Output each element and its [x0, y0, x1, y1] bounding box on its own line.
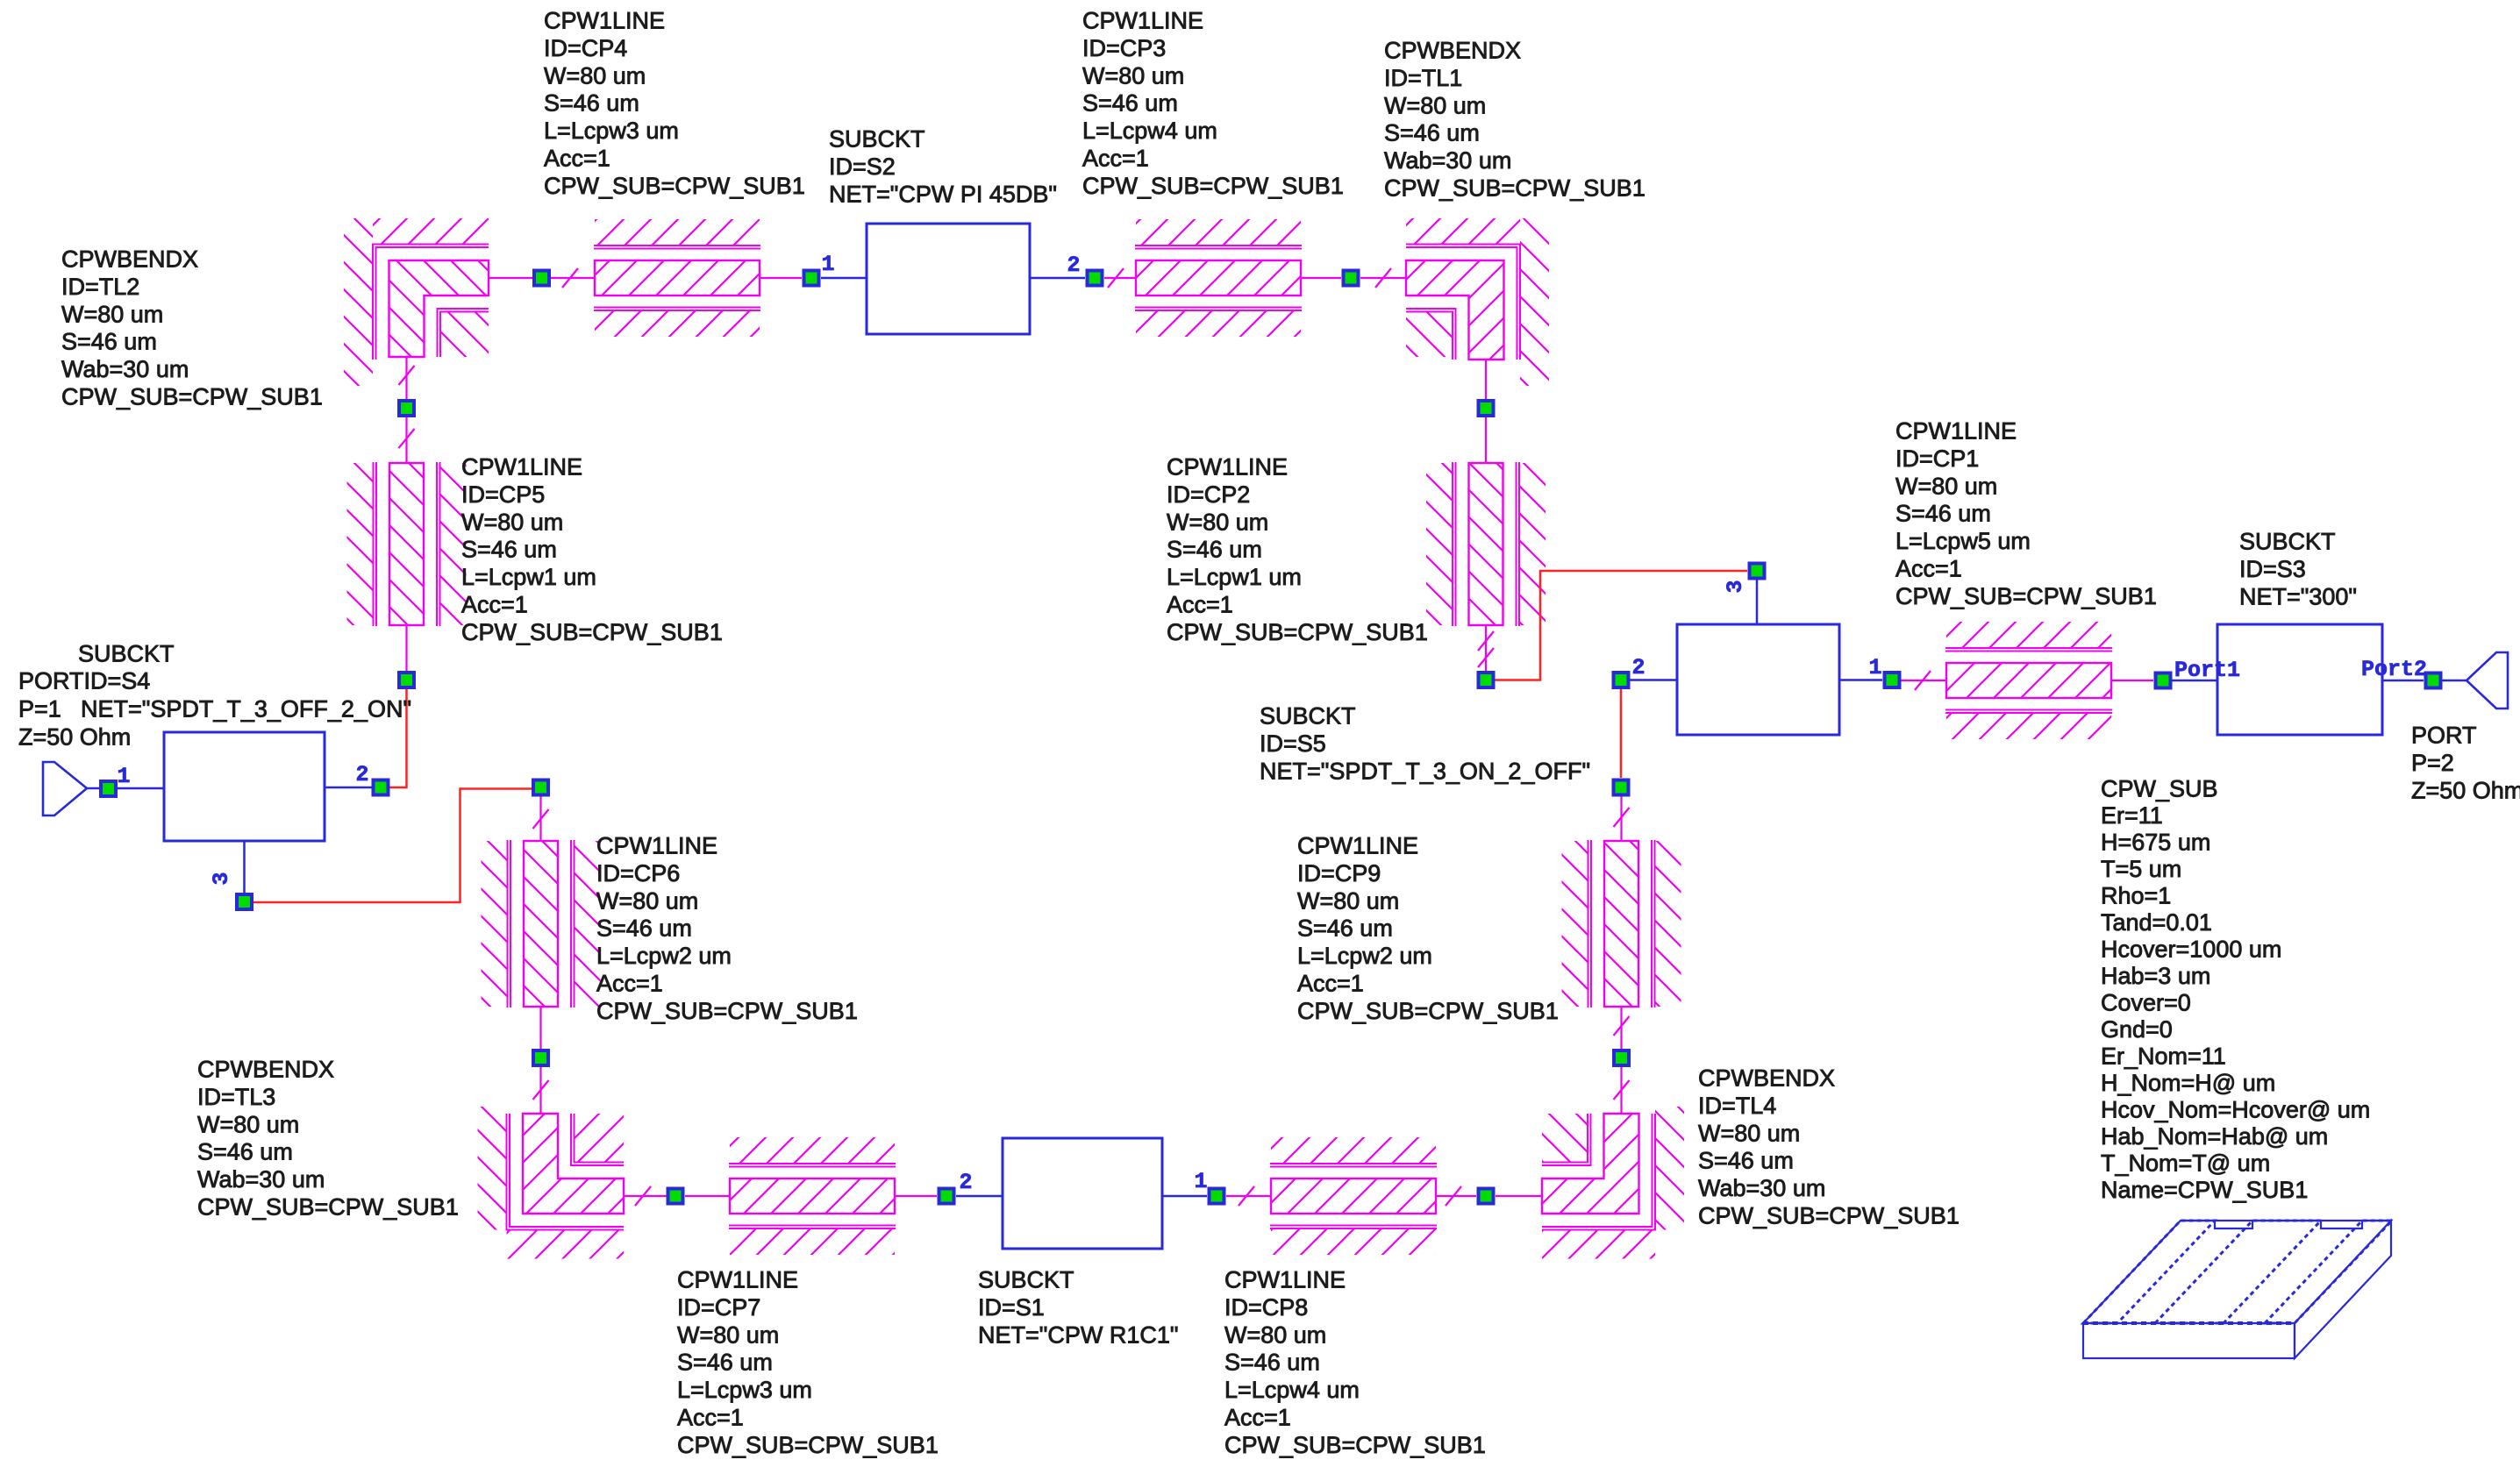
svg-text:L=Lcpw2 um: L=Lcpw2 um — [596, 943, 732, 969]
CPW bend TL1 (CPWBENDX) — [1406, 218, 1549, 386]
svg-text:SUBCKT: SUBCKT — [829, 126, 925, 153]
svg-text:L=Lcpw1 um: L=Lcpw1 um — [461, 564, 596, 590]
svg-text:L=Lcpw3 um: L=Lcpw3 um — [677, 1377, 812, 1403]
wire CP9 bottom to node — [1614, 1007, 1630, 1049]
svg-text:CPW_SUB=CPW_SUB1: CPW_SUB=CPW_SUB1 — [1082, 173, 1344, 199]
svg-text:CPW1LINE: CPW1LINE — [461, 454, 582, 481]
svg-text:NET="CPW PI 45DB": NET="CPW PI 45DB" — [829, 181, 1057, 207]
svg-text:Acc=1: Acc=1 — [1167, 592, 1233, 618]
svg-text:1: 1 — [821, 252, 834, 277]
svg-text:Acc=1: Acc=1 — [1895, 556, 1962, 582]
svg-text:Gnd=0: Gnd=0 — [2101, 1016, 2173, 1043]
wire CP4 right to node — [760, 277, 802, 279]
svg-text:S=46 um: S=46 um — [1698, 1148, 1794, 1174]
port P1 symbol — [43, 762, 87, 815]
svg-text:2: 2 — [1631, 655, 1645, 680]
wire S4 pin2 — [325, 787, 372, 789]
svg-text:S=46 um: S=46 um — [61, 329, 157, 355]
svg-text:W=80 um: W=80 um — [1384, 92, 1486, 118]
subcircuit S4 box — [164, 732, 325, 841]
svg-text:ID=S3: ID=S3 — [2239, 556, 2306, 582]
svg-text:CPW_SUB=CPW_SUB1: CPW_SUB=CPW_SUB1 — [1167, 619, 1428, 645]
label P1 Z=50 Ohm — [18, 724, 131, 751]
label CPW_SUB params — [2101, 776, 2370, 1204]
svg-text:PORTID=S4: PORTID=S4 — [18, 668, 150, 694]
node S4 pin2 — [372, 779, 390, 797]
svg-text:SUBCKT: SUBCKT — [978, 1267, 1074, 1293]
svg-text:CPW_SUB=CPW_SUB1: CPW_SUB=CPW_SUB1 — [544, 173, 805, 199]
svg-text:3: 3 — [209, 872, 234, 885]
svg-text:CPW_SUB=CPW_SUB1: CPW_SUB=CPW_SUB1 — [1895, 583, 2157, 609]
CPW bend TL3 (CPWBENDX) — [478, 1107, 625, 1259]
svg-text:W=80 um: W=80 um — [461, 509, 563, 535]
svg-text:Acc=1: Acc=1 — [1082, 146, 1149, 172]
wire node to S2 pin1 — [821, 277, 867, 280]
wire CP7 right to node — [895, 1195, 937, 1197]
svg-text:CPW_SUB=CPW_SUB1: CPW_SUB=CPW_SUB1 — [677, 1432, 939, 1458]
svg-text:CPW1LINE: CPW1LINE — [596, 833, 717, 859]
wire CP1 right to node — [2111, 680, 2153, 681]
wire node to TL3 top — [533, 1067, 549, 1114]
node TL2/CP4 — [532, 269, 551, 288]
wire node to TL4 top — [1614, 1067, 1630, 1114]
svg-text:2: 2 — [1067, 253, 1080, 278]
label CPW1LINE CP8 — [1224, 1267, 1486, 1458]
svg-text:Z=50 Ohm: Z=50 Ohm — [2411, 777, 2520, 803]
svg-text:S=46 um: S=46 um — [197, 1139, 293, 1165]
label SUBCKT S2 — [829, 126, 1057, 208]
wire TL2 right to node — [489, 277, 532, 279]
svg-text:S=46 um: S=46 um — [1297, 915, 1393, 942]
svg-text:Tand=0.01: Tand=0.01 — [2101, 909, 2212, 936]
wire node to CP4 left — [551, 268, 595, 288]
node S3 Port2 — [2424, 672, 2443, 690]
svg-text:CPWBENDX: CPWBENDX — [197, 1057, 334, 1083]
svg-text:Hcov_Nom=Hcover@ um: Hcov_Nom=Hcover@ um — [2101, 1097, 2370, 1123]
wire node to S3 Port1 — [2172, 680, 2217, 682]
wire S5 pin1 — [1839, 679, 1882, 681]
node TL3/CP7 — [667, 1187, 685, 1206]
label SUBCKT S5 — [1260, 703, 1590, 785]
CPW1LINE CP9 symbol — [1562, 840, 1681, 1008]
wire node to TL1 left — [1360, 268, 1406, 288]
svg-text:Hcover=1000 um: Hcover=1000 um — [2101, 936, 2281, 963]
svg-text:ID=CP8: ID=CP8 — [1224, 1294, 1308, 1321]
svg-text:H=675 um: H=675 um — [2101, 830, 2210, 856]
label CPWBENDX TL1 — [1384, 38, 1645, 202]
wire node to CP1 left — [1901, 671, 1946, 690]
wire node to CP8 left — [1226, 1186, 1271, 1206]
node S5 pin3 — [1748, 562, 1767, 580]
label S4 P=1 — [18, 696, 61, 723]
svg-text:CPW_SUB=CPW_SUB1: CPW_SUB=CPW_SUB1 — [596, 998, 858, 1024]
Port1 label S3 — [2174, 658, 2240, 683]
svg-text:CPW1LINE: CPW1LINE — [677, 1267, 798, 1293]
node CP8/TL4 — [1477, 1187, 1496, 1206]
svg-text:S=46 um: S=46 um — [677, 1349, 773, 1376]
node CP9 top — [1612, 779, 1631, 797]
svg-text:CPW1LINE: CPW1LINE — [544, 8, 665, 34]
svg-text:S=46 um: S=46 um — [461, 537, 557, 563]
label S4 NET — [81, 696, 411, 723]
svg-text:Er_Nom=11: Er_Nom=11 — [2101, 1043, 2226, 1070]
svg-text:P=1: P=1 — [18, 696, 61, 723]
wire S4 pin3 — [243, 841, 246, 893]
CPW1LINE CP2 symbol — [1426, 462, 1546, 626]
wire S3 Port2 to node — [2382, 680, 2424, 682]
wire port1 to S4 pin1 — [87, 787, 164, 790]
CPW1LINE CP7 symbol — [729, 1137, 896, 1255]
pin 1 label S1 — [1194, 1169, 1207, 1194]
label CPW1LINE CP4 — [544, 8, 805, 199]
svg-text:Acc=1: Acc=1 — [1297, 971, 1364, 997]
label CPW1LINE CP5 — [461, 454, 723, 645]
substrate CPW_SUB1 3D icon — [2083, 1221, 2392, 1358]
svg-text:1: 1 — [1868, 655, 1881, 680]
svg-text:SUBCKT: SUBCKT — [1260, 703, 1356, 730]
node TL1/CP2 — [1477, 399, 1496, 417]
wire S5 pin3 — [1756, 580, 1759, 624]
pin 1 label S4 — [117, 764, 130, 789]
label CPW1LINE CP9 — [1297, 833, 1559, 1024]
svg-text:NET="300": NET="300" — [2239, 583, 2357, 609]
svg-text:W=80 um: W=80 um — [197, 1111, 299, 1137]
wire CP2 bottom to node — [1478, 625, 1494, 671]
node S4 pin3 — [235, 893, 253, 911]
svg-text:Er=11: Er=11 — [2101, 802, 2163, 829]
svg-text:L=Lcpw4 um: L=Lcpw4 um — [1224, 1377, 1360, 1403]
svg-text:SUBCKT: SUBCKT — [2239, 529, 2336, 555]
svg-text:W=80 um: W=80 um — [677, 1321, 779, 1348]
svg-text:Port1: Port1 — [2174, 658, 2240, 683]
pin 2 label S1 — [959, 1170, 972, 1195]
pin 2 label S2 — [1067, 253, 1080, 278]
svg-text:W=80 um: W=80 um — [61, 301, 163, 327]
label CPW1LINE CP6 — [596, 833, 858, 1024]
wire node to CP3 left — [1104, 268, 1136, 288]
svg-text:ID=CP3: ID=CP3 — [1082, 35, 1166, 61]
svg-text:Hab=3 um: Hab=3 um — [2101, 963, 2210, 989]
svg-text:CPW1LINE: CPW1LINE — [1167, 454, 1288, 481]
svg-text:W=80 um: W=80 um — [1895, 473, 1997, 499]
wire CP6 bottom to node — [539, 1007, 541, 1049]
svg-text:Z=50 Ohm: Z=50 Ohm — [18, 724, 131, 751]
label CPWBENDX TL4 — [1698, 1065, 1960, 1229]
svg-text:ID=CP6: ID=CP6 — [596, 860, 680, 887]
svg-text:Port2: Port2 — [2361, 657, 2427, 682]
svg-text:NET="SPDT_T_3_ON_2_OFF": NET="SPDT_T_3_ON_2_OFF" — [1260, 758, 1590, 784]
svg-text:CPW_SUB=CPW_SUB1: CPW_SUB=CPW_SUB1 — [461, 619, 723, 645]
pin 3 label S4 (rotated) — [209, 872, 234, 885]
red wire S4 pin2 to CP5 bottom node — [389, 689, 407, 787]
wire S1 pin1 to node — [1162, 1195, 1207, 1198]
svg-text:S=46 um: S=46 um — [1167, 537, 1262, 563]
subcircuit S2 box — [867, 224, 1030, 334]
svg-text:S=46 um: S=46 um — [1082, 90, 1178, 117]
svg-text:CPW_SUB=CPW_SUB1: CPW_SUB=CPW_SUB1 — [1297, 998, 1559, 1024]
node port1/S4 pin1 — [99, 780, 118, 798]
node CP6/TL3 — [532, 1049, 550, 1067]
node S5 pin2 — [1612, 671, 1631, 689]
label CPW1LINE CP2 — [1167, 454, 1428, 645]
svg-text:CPW1LINE: CPW1LINE — [1297, 833, 1418, 859]
port P2 symbol — [2466, 652, 2508, 709]
svg-text:Acc=1: Acc=1 — [544, 146, 610, 172]
svg-text:L=Lcpw1 um: L=Lcpw1 um — [1167, 564, 1302, 590]
wire TL2 bottom to node — [399, 357, 415, 399]
svg-text:ID=TL3: ID=TL3 — [197, 1084, 275, 1110]
svg-text:Acc=1: Acc=1 — [461, 592, 528, 618]
svg-text:1: 1 — [117, 764, 130, 789]
svg-text:CPW_SUB=CPW_SUB1: CPW_SUB=CPW_SUB1 — [1384, 175, 1645, 202]
svg-text:SUBCKT: SUBCKT — [78, 641, 175, 667]
svg-text:CPWBENDX: CPWBENDX — [1698, 1065, 1835, 1092]
svg-text:S=46 um: S=46 um — [1895, 501, 1991, 527]
pin 3 label S5 (rotated) — [1723, 580, 1748, 593]
svg-text:W=80 um: W=80 um — [1167, 509, 1268, 535]
svg-text:W=80 um: W=80 um — [1224, 1321, 1326, 1348]
label PORT P1 / S4 id — [18, 668, 150, 694]
CPW1LINE CP6 symbol — [482, 840, 601, 1008]
wire CP6 top — [533, 796, 549, 841]
svg-text:NET="CPW R1C1": NET="CPW R1C1" — [978, 1321, 1178, 1348]
node CP1/S3 Port1 — [2154, 672, 2173, 690]
svg-text:W=80 um: W=80 um — [596, 887, 698, 914]
label CPW1LINE CP7 — [677, 1267, 939, 1458]
svg-text:Wab=30 um: Wab=30 um — [1384, 147, 1511, 174]
wire CP9 top — [1614, 796, 1630, 841]
svg-text:S=46 um: S=46 um — [1384, 120, 1480, 146]
svg-text:CPW1LINE: CPW1LINE — [1895, 418, 2017, 445]
CPW1LINE CP4 symbol — [594, 219, 760, 337]
node S1 pin1/CP8 — [1208, 1187, 1226, 1206]
wire TL1 bottom to node — [1485, 360, 1487, 399]
pin 1 label S5 — [1868, 655, 1881, 680]
Port2 label S3 — [2361, 657, 2427, 682]
node CP5 bottom — [397, 671, 416, 689]
subcircuit S5 box — [1677, 624, 1839, 735]
svg-text:W=80 um: W=80 um — [544, 62, 646, 89]
label SUBCKT S4 header — [78, 641, 175, 667]
label CPW1LINE CP3 — [1082, 8, 1344, 199]
svg-text:ID=CP7: ID=CP7 — [677, 1294, 760, 1321]
svg-text:Rho=1: Rho=1 — [2101, 883, 2171, 909]
wire CP3 right to node — [1301, 277, 1341, 279]
CPW bend TL4 (CPWBENDX) — [1542, 1107, 1684, 1259]
CPW1LINE CP8 symbol — [1270, 1137, 1437, 1255]
CPW bend TL2 (CPWBENDX) — [344, 218, 489, 386]
svg-text:L=Lcpw5 um: L=Lcpw5 um — [1895, 528, 2031, 554]
svg-text:CPW1LINE: CPW1LINE — [1224, 1267, 1346, 1293]
label CPWBENDX TL2 — [61, 246, 323, 410]
svg-text:ID=CP1: ID=CP1 — [1895, 445, 1979, 472]
svg-text:W=80 um: W=80 um — [1082, 62, 1184, 89]
svg-text:W=80 um: W=80 um — [1297, 887, 1399, 914]
svg-text:ID=TL2: ID=TL2 — [61, 274, 139, 300]
wire node to CP7 left — [685, 1195, 730, 1197]
svg-text:H_Nom=H@ um: H_Nom=H@ um — [2101, 1070, 2275, 1096]
svg-text:ID=TL4: ID=TL4 — [1698, 1093, 1776, 1119]
red wire CP2 node to S5 pin3 — [1495, 571, 1747, 680]
svg-text:CPW_SUB: CPW_SUB — [2101, 776, 2218, 802]
svg-text:S=46 um: S=46 um — [544, 90, 639, 117]
svg-text:Acc=1: Acc=1 — [677, 1405, 744, 1431]
node CP6 top — [532, 779, 550, 797]
pin 1 label S2 — [821, 252, 834, 277]
svg-text:Acc=1: Acc=1 — [1224, 1405, 1291, 1431]
node CP3/TL1 — [1342, 269, 1360, 288]
pin 2 label S5 — [1631, 655, 1645, 680]
wire node to TL4 left — [1496, 1195, 1542, 1197]
svg-text:ID=CP5: ID=CP5 — [461, 481, 545, 508]
svg-text:ID=TL1: ID=TL1 — [1384, 65, 1462, 91]
CPW1LINE CP1 symbol — [1945, 622, 2112, 739]
svg-text:ID=CP4: ID=CP4 — [544, 35, 627, 61]
wire CP5 bottom — [405, 625, 407, 671]
svg-text:PORT: PORT — [2411, 723, 2477, 749]
svg-text:ID=S1: ID=S1 — [978, 1294, 1045, 1321]
svg-text:CPW_SUB=CPW_SUB1: CPW_SUB=CPW_SUB1 — [61, 384, 323, 410]
node S2 pin2/CP3 — [1086, 269, 1104, 288]
svg-text:W=80 um: W=80 um — [1698, 1120, 1800, 1146]
node CP2 bottom — [1477, 671, 1496, 689]
svg-text:CPWBENDX: CPWBENDX — [61, 246, 198, 273]
svg-text:Hab_Nom=Hab@ um: Hab_Nom=Hab@ um — [2101, 1123, 2328, 1150]
svg-text:CPWBENDX: CPWBENDX — [1384, 38, 1521, 64]
subcircuit S3 box — [2217, 624, 2382, 735]
svg-text:Acc=1: Acc=1 — [596, 971, 663, 997]
svg-text:ID=CP2: ID=CP2 — [1167, 481, 1250, 508]
svg-text:Cover=0: Cover=0 — [2101, 990, 2191, 1016]
svg-text:CPW_SUB=CPW_SUB1: CPW_SUB=CPW_SUB1 — [197, 1194, 459, 1221]
wire node to CP2 top — [1485, 417, 1487, 463]
node TL2/CP5 — [397, 399, 416, 417]
svg-text:Name=CPW_SUB1: Name=CPW_SUB1 — [2101, 1177, 2308, 1203]
svg-text:2: 2 — [355, 762, 368, 787]
node CP7/S1 pin2 — [938, 1187, 956, 1206]
svg-text:2: 2 — [959, 1170, 972, 1195]
wire node to port2 — [2442, 680, 2466, 682]
svg-text:CPW_SUB=CPW_SUB1: CPW_SUB=CPW_SUB1 — [1224, 1432, 1486, 1458]
svg-text:S=46 um: S=46 um — [1224, 1349, 1320, 1376]
wire CP5 top to node — [399, 417, 415, 463]
red wire S5 pin2 to CP9 top node — [1620, 689, 1623, 778]
svg-text:T_Nom=T@ um: T_Nom=T@ um — [2101, 1150, 2270, 1177]
label CPWBENDX TL3 — [197, 1057, 459, 1221]
red wire S4 pin3 to CP6 top node — [253, 789, 532, 903]
label PORT P2 — [2411, 723, 2520, 804]
subcircuit S1 box — [1003, 1138, 1162, 1249]
CPW1LINE CP5 symbol — [347, 462, 467, 626]
svg-text:ID=S2: ID=S2 — [829, 153, 896, 180]
svg-text:P=2: P=2 — [2411, 750, 2454, 776]
CPW1LINE CP3 symbol — [1135, 219, 1302, 337]
svg-text:3: 3 — [1723, 580, 1748, 593]
svg-text:ID=CP9: ID=CP9 — [1297, 860, 1381, 887]
svg-text:T=5 um: T=5 um — [2101, 856, 2181, 882]
wire node to S1 pin2 — [956, 1195, 1003, 1198]
svg-text:L=Lcpw2 um: L=Lcpw2 um — [1297, 943, 1432, 969]
node CP9/TL4 — [1612, 1049, 1631, 1067]
wire S5 pin2 — [1630, 679, 1677, 681]
svg-text:CPW_SUB=CPW_SUB1: CPW_SUB=CPW_SUB1 — [1698, 1203, 1960, 1229]
node CP4/S2 pin1 — [803, 269, 821, 288]
svg-text:Wab=30 um: Wab=30 um — [61, 356, 189, 382]
svg-text:NET="SPDT_T_3_OFF_2_ON": NET="SPDT_T_3_OFF_2_ON" — [81, 696, 411, 723]
wire S2 pin2 to node — [1030, 277, 1085, 280]
pin 2 label S4 — [355, 762, 368, 787]
label CPW1LINE CP1 — [1895, 418, 2157, 609]
svg-text:ID=S5: ID=S5 — [1260, 730, 1326, 757]
wire CP8 right to node — [1436, 1186, 1476, 1206]
svg-text:1: 1 — [1194, 1169, 1207, 1194]
svg-text:Wab=30 um: Wab=30 um — [197, 1166, 325, 1193]
svg-text:L=Lcpw4 um: L=Lcpw4 um — [1082, 117, 1217, 144]
svg-text:CPW1LINE: CPW1LINE — [1082, 8, 1203, 34]
wire TL3 right to node — [624, 1186, 667, 1206]
svg-text:S=46 um: S=46 um — [596, 915, 692, 942]
svg-text:Wab=30 um: Wab=30 um — [1698, 1175, 1825, 1201]
node S5 pin1 — [1883, 671, 1902, 689]
label SUBCKT S1 — [978, 1267, 1178, 1349]
label SUBCKT S3 — [2239, 529, 2357, 610]
svg-text:L=Lcpw3 um: L=Lcpw3 um — [544, 117, 679, 144]
